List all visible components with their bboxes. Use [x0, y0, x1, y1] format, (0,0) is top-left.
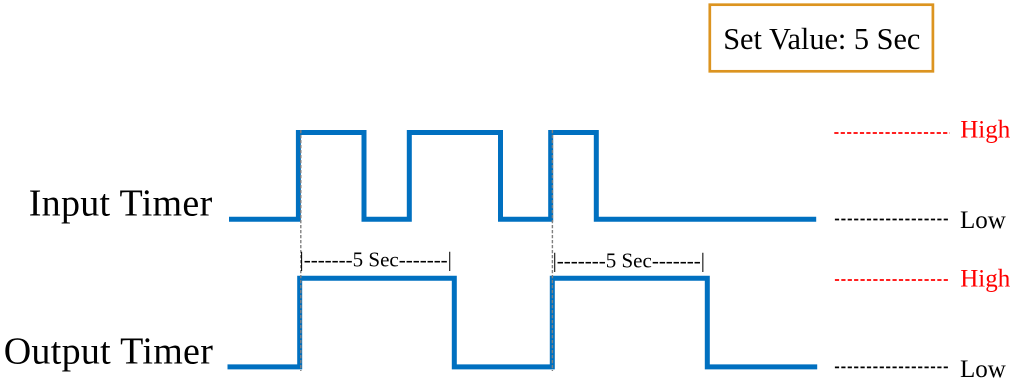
svg-text:Low: Low [960, 356, 1006, 378]
svg-text:Output Timer: Output Timer [4, 331, 214, 373]
svg-text:|-------5 Sec-------|: |-------5 Sec-------| [553, 248, 705, 272]
svg-text:Low: Low [960, 207, 1006, 234]
svg-text:Set Value: 5 Sec: Set Value: 5 Sec [723, 22, 920, 56]
svg-text:High: High [960, 117, 1011, 144]
svg-text:|-------5 Sec-------|: |-------5 Sec-------| [300, 247, 452, 271]
svg-text:Input Timer: Input Timer [29, 182, 213, 224]
svg-text:High: High [960, 266, 1011, 293]
